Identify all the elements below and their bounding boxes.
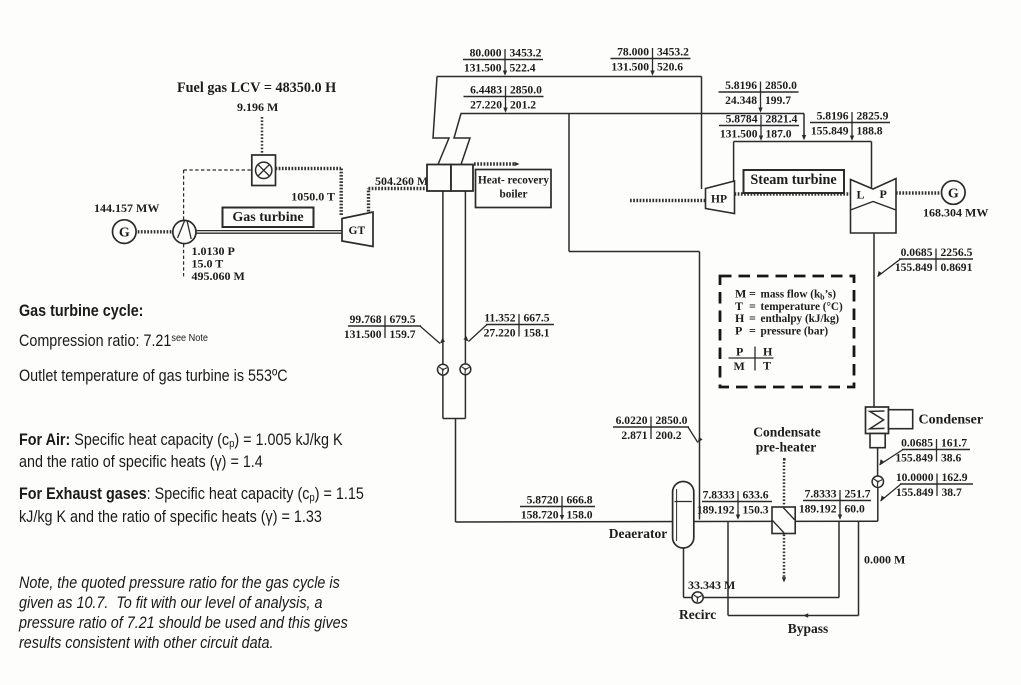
svg-text:131.500: 131.500 <box>344 328 382 341</box>
svg-text:158.0: 158.0 <box>567 508 593 521</box>
svg-text:temperature (°C): temperature (°C) <box>761 301 844 313</box>
svg-text:188.8: 188.8 <box>857 124 883 137</box>
svg-text:2850.0: 2850.0 <box>765 79 797 92</box>
svg-text:78.000: 78.000 <box>617 46 649 59</box>
svg-text:5.8720: 5.8720 <box>527 494 559 507</box>
svg-text:2825.9: 2825.9 <box>857 110 889 123</box>
wire deaerator steam line down to feed line <box>699 252 701 520</box>
svg-text:38.6: 38.6 <box>941 451 961 464</box>
wire GT exhaust vertical <box>367 189 370 212</box>
svg-text:201.2: 201.2 <box>510 98 536 111</box>
svg-text:155.849: 155.849 <box>896 486 934 499</box>
wire recirc pump discharge horizontal <box>703 597 839 599</box>
wire ambient air inlet (dashed) <box>183 244 185 278</box>
recirculation pump <box>692 592 703 603</box>
combustor cross stroke 2 <box>258 165 269 176</box>
node label condensate pump discharge <box>881 471 974 501</box>
svg-text:80.000: 80.000 <box>470 47 502 60</box>
legend dashed box <box>720 276 854 387</box>
svg-text:Steam turbine: Steam turbine <box>750 172 836 188</box>
node label HP turbine inlet <box>719 113 799 141</box>
node label IP header from boiler <box>464 84 544 113</box>
wire deaerator drain down <box>683 548 685 598</box>
wire heating stream into pre-heater (dotted) <box>783 462 786 506</box>
gas turbine GT trapezoid <box>342 212 373 247</box>
node label LP turbine inlet <box>810 110 890 141</box>
pump on boiler left column <box>438 364 449 375</box>
wire GT exhaust horizontal to boiler <box>369 187 428 190</box>
svg-text:199.7: 199.7 <box>765 94 791 107</box>
svg-text:0.000 M: 0.000 M <box>864 553 905 567</box>
svg-text:251.7: 251.7 <box>845 488 871 501</box>
node label feedwater from economiser <box>520 494 595 522</box>
svg-text:2.871: 2.871 <box>621 429 647 442</box>
wire bypass horizontal line <box>728 615 859 617</box>
svg-text:131.500: 131.500 <box>611 60 649 73</box>
svg-text:158.720: 158.720 <box>521 508 559 521</box>
svg-text:150.3: 150.3 <box>743 503 769 516</box>
wire IP steam header line <box>461 113 805 115</box>
svg-text:144.157 MW: 144.157 MW <box>94 201 159 215</box>
condensate extraction pump <box>872 476 883 487</box>
svg-text:Condenser: Condenser <box>919 413 984 428</box>
svg-text:6.4483: 6.4483 <box>470 84 502 97</box>
wire combustor outlet hot gas horizontal <box>276 167 342 170</box>
svg-text:boiler: boiler <box>500 189 528 201</box>
svg-text:520.6: 520.6 <box>657 60 683 73</box>
wire boiler exhaust out arrow <box>474 162 514 165</box>
svg-text:24.348: 24.348 <box>725 94 757 107</box>
wire combustor outlet hot gas down to GT <box>340 169 343 217</box>
svg-text:2256.5: 2256.5 <box>941 246 973 259</box>
wire main feedwater line (bottom) <box>456 520 878 523</box>
compressor symbol <box>173 220 196 243</box>
svg-text:666.8: 666.8 <box>567 494 593 507</box>
svg-text:Recirc: Recirc <box>679 607 716 622</box>
svg-text:679.5: 679.5 <box>390 313 416 326</box>
svg-text:495.060 M: 495.060 M <box>192 269 245 283</box>
svg-text:Deaerator: Deaerator <box>609 526 667 541</box>
node label HP header from boiler <box>463 47 543 76</box>
wire steam turbine inlet header <box>734 141 872 143</box>
svg-text:5.8196: 5.8196 <box>817 110 849 123</box>
svg-text:3453.2: 3453.2 <box>657 46 689 59</box>
node label LP exhaust to condenser <box>878 246 974 276</box>
legend text M T H P definitions <box>735 287 843 338</box>
left text annotations <box>19 302 143 321</box>
heat-recovery boiler right section box <box>451 165 473 192</box>
HP turbine trapezoid <box>706 181 735 214</box>
heat-recovery boiler label box <box>476 170 552 208</box>
generator G (gas turbine) circle <box>113 220 137 244</box>
svg-text:155.849: 155.849 <box>811 124 849 137</box>
svg-text:M: M <box>734 359 745 373</box>
deaerator vessel <box>673 482 694 549</box>
svg-text:H: H <box>763 345 773 359</box>
svg-text:667.5: 667.5 <box>524 312 550 325</box>
pre-heater diagonal stroke lower <box>773 521 785 533</box>
svg-text:=: = <box>749 323 756 337</box>
wire deaerator steam line horizontal <box>569 251 700 253</box>
svg-text:99.768: 99.768 <box>350 313 382 326</box>
svg-text:158.1: 158.1 <box>524 326 550 339</box>
wire condensate pump discharge to feed line <box>877 487 879 521</box>
node label boiler right column state <box>463 312 554 342</box>
svg-text:G: G <box>119 226 130 241</box>
wire bypass downpipe left <box>727 522 729 616</box>
svg-text:60.0: 60.0 <box>845 502 865 515</box>
svg-text:T: T <box>763 358 771 372</box>
svg-text:Fuel gas LCV = 48350.0 H: Fuel gas LCV = 48350.0 H <box>177 80 336 96</box>
wire deaerator steam line vertical from IP header <box>568 114 570 252</box>
svg-text:GT: GT <box>349 225 366 237</box>
svg-text:187.0: 187.0 <box>766 127 792 140</box>
shaft HP turbine to LP turbine <box>735 192 851 195</box>
condenser sigma coil symbol <box>870 411 885 429</box>
svg-text:P: P <box>736 345 743 359</box>
svg-text:3453.2: 3453.2 <box>510 47 542 60</box>
svg-text:5.8784: 5.8784 <box>726 113 758 126</box>
wire hotwell to condensate pump <box>877 448 879 476</box>
condenser box <box>866 407 889 434</box>
heat-recovery boiler left section box <box>427 165 451 192</box>
wire boiler downcomer (left column) <box>442 191 444 419</box>
svg-text:189.192: 189.192 <box>799 502 837 515</box>
svg-text:155.849: 155.849 <box>895 451 933 464</box>
svg-text:159.7: 159.7 <box>390 328 416 341</box>
svg-text:11.352: 11.352 <box>484 312 515 325</box>
condenser hotwell box <box>870 434 885 448</box>
wire HP steam header line (top) <box>437 76 702 78</box>
svg-text:189.192: 189.192 <box>697 503 735 516</box>
deaerator inner wall line <box>676 489 678 541</box>
pre-heater diagonal stroke upper <box>783 508 794 520</box>
boiler riser duct break (left bolt) <box>433 77 449 165</box>
node label pre-heater inlet <box>697 489 772 520</box>
svg-text:7.8333: 7.8333 <box>703 489 735 502</box>
legend P|H over M|T key <box>729 345 774 373</box>
deaerator water level line <box>675 501 692 503</box>
svg-text:G: G <box>948 187 959 202</box>
wire heating stream out of pre-heater (dotted) <box>783 535 786 578</box>
svg-text:168.304 MW: 168.304 MW <box>923 206 988 220</box>
node label steam to deaerator <box>613 414 703 442</box>
svg-text:0.0685: 0.0685 <box>901 437 933 450</box>
wire boiler column bottom cap <box>443 418 466 420</box>
wire fuel gas line into combustor <box>261 117 264 155</box>
svg-text:633.6: 633.6 <box>743 489 769 502</box>
wire IP steam elbow down to turbine inlet header <box>803 114 805 136</box>
svg-text:9.196 M: 9.196 M <box>237 100 278 114</box>
svg-text:10.0000: 10.0000 <box>896 471 934 484</box>
shaft compressor to gas turbine (lower line) <box>196 232 342 234</box>
svg-text:5.8196: 5.8196 <box>725 79 757 92</box>
svg-text:1050.0 T: 1050.0 T <box>291 190 335 204</box>
condenser cooling water box <box>889 410 913 429</box>
svg-text:155.849: 155.849 <box>895 261 933 274</box>
svg-text:mass flow (kb’s): mass flow (kb’s) <box>761 289 837 302</box>
combustor burner circle <box>256 162 272 178</box>
svg-text:P: P <box>735 323 742 337</box>
wire compressor discharge air (dashed vertical) <box>183 170 185 220</box>
svg-text:162.9: 162.9 <box>942 471 968 484</box>
node label HP steam to turbine <box>611 46 691 76</box>
svg-text:enthalpy (kJ/kg): enthalpy (kJ/kg) <box>761 313 840 325</box>
wire HP steam downpipe to HP turbine <box>701 77 703 190</box>
svg-text:P: P <box>880 187 887 201</box>
svg-text:131.500: 131.500 <box>464 61 502 74</box>
svg-text:Heat- recovery: Heat- recovery <box>478 175 549 187</box>
LP turbine interior waist lines <box>851 202 897 211</box>
svg-text:0.8691: 0.8691 <box>941 261 973 274</box>
node label condensate from condenser <box>880 437 971 465</box>
svg-text:200.2: 200.2 <box>656 429 682 442</box>
svg-text:161.7: 161.7 <box>941 437 967 450</box>
svg-text:7.8333: 7.8333 <box>805 488 837 501</box>
condensate pre-heater box <box>772 507 795 534</box>
wire bypass riser right <box>858 521 860 615</box>
wire recirc return riser to feed line <box>838 521 840 597</box>
svg-text:pressure (bar): pressure (bar) <box>761 325 829 337</box>
LP turbine double-flow casing <box>851 179 897 234</box>
generator G (steam turbine) circle <box>942 181 966 205</box>
node label boiler left column state <box>344 313 445 343</box>
svg-text:0.0685: 0.0685 <box>901 246 933 259</box>
svg-text:522.4: 522.4 <box>510 61 536 74</box>
bypass flow arrow (points left) <box>803 613 808 617</box>
wire inlet header left drop to HP turbine <box>733 142 735 183</box>
pump on boiler right column <box>460 364 471 375</box>
wire boiler riser (right column) <box>464 191 466 419</box>
shaft stub into HP turbine <box>630 199 705 202</box>
compressor blade line left <box>178 221 185 238</box>
svg-text:38.7: 38.7 <box>942 486 962 499</box>
shaft compressor to gas turbine (upper line) <box>196 230 342 232</box>
svg-text:131.500: 131.500 <box>720 127 758 140</box>
wire drain to recirc pump <box>684 597 693 599</box>
boiler riser duct break (right bolt) <box>454 114 470 165</box>
svg-text:2850.0: 2850.0 <box>656 414 688 427</box>
svg-text:27.220: 27.220 <box>470 98 502 111</box>
svg-text:pre-heater: pre-heater <box>756 440 816 455</box>
svg-text:Condensate: Condensate <box>753 425 821 440</box>
svg-text:27.220: 27.220 <box>484 326 516 339</box>
wire feedwater line boiler to main feed line <box>455 419 457 523</box>
svg-text:Gas turbine: Gas turbine <box>232 210 303 225</box>
node label IP steam admission <box>719 79 799 113</box>
gas turbine label box <box>223 208 314 228</box>
svg-text:2821.4: 2821.4 <box>766 113 798 126</box>
svg-text:L: L <box>857 188 865 202</box>
steam turbine label box <box>744 170 845 193</box>
combustor box <box>252 155 276 186</box>
compressor blade line right <box>187 222 191 240</box>
shaft LP turbine to generator G <box>896 191 941 194</box>
wire LP turbine exhaust to condenser <box>873 233 875 407</box>
shaft generator G to compressor <box>135 230 174 233</box>
node label pre-heater outlet <box>799 488 871 520</box>
svg-text:HP: HP <box>711 194 727 206</box>
wire inlet header right drop to LP turbine <box>871 142 873 188</box>
svg-text:6.0220: 6.0220 <box>616 414 648 427</box>
svg-text:2850.0: 2850.0 <box>510 84 542 97</box>
svg-text:504.260 M: 504.260 M <box>375 174 428 188</box>
wire compressor discharge air (dashed horizontal) <box>184 169 252 171</box>
combustor cross stroke 1 <box>258 165 269 176</box>
svg-text:Bypass: Bypass <box>788 621 829 636</box>
